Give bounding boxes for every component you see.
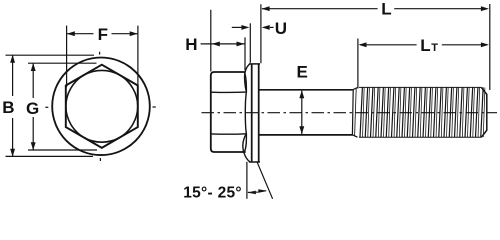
- threads: [360, 87, 485, 137]
- flange cone curve top: [245, 64, 250, 92]
- angle arrow left: [248, 191, 256, 195]
- U arrow right shaft: [270, 26, 274, 28]
- thread runout bottom: [353, 135, 358, 137]
- flange right face: [258, 64, 260, 162]
- centerline of bolt axis: [202, 112, 498, 114]
- head-flange boundary: [244, 72, 246, 152]
- svg-text:L: L: [420, 36, 430, 55]
- E arrow down: [299, 126, 304, 134]
- U arrow left shaft: [232, 26, 242, 28]
- outer flange circle (left view): [52, 58, 150, 156]
- dimension B extension line bottom: [6, 155, 94, 157]
- dimension G line: [32, 63, 34, 98]
- svg-text:U: U: [275, 19, 287, 38]
- H arrow left: [212, 41, 220, 46]
- LT arrow right: [481, 42, 489, 47]
- dimension G extension line bottom: [28, 149, 97, 151]
- bolt tip chamfer: [481, 87, 487, 137]
- dimension LT line: [360, 44, 417, 46]
- svg-text:L: L: [381, 0, 391, 19]
- U arrow left head: [241, 25, 249, 30]
- dimension F extension line right: [137, 26, 139, 90]
- hex head outline (side view): [211, 72, 246, 152]
- U extension line left: [249, 23, 251, 63]
- centerline tick right: [153, 106, 156, 108]
- L arrow right: [481, 6, 489, 11]
- dimension F arrow left: [67, 31, 75, 36]
- dimension E line: [301, 91, 303, 134]
- LT arrow left: [359, 42, 367, 47]
- L arrow left: [262, 6, 270, 11]
- svg-text:G: G: [26, 99, 39, 118]
- chamfer rounded hex (left view): [66, 70, 138, 142]
- dimension B line: [12, 55, 14, 96]
- U extension line right (shared with L): [260, 4, 262, 63]
- dimension G extension line top: [28, 62, 97, 64]
- svg-text:H: H: [185, 35, 197, 54]
- E arrow up: [299, 90, 304, 98]
- head facet line lower: [211, 133, 246, 135]
- hex head outline (left view): [66, 65, 138, 148]
- svg-text:B: B: [2, 98, 14, 117]
- flange top edge: [249, 63, 260, 65]
- dimension B arrow up: [10, 55, 15, 63]
- H extension line right: [244, 37, 246, 70]
- thread runout stroke: [355, 88, 357, 136]
- dimension G arrow down: [31, 142, 36, 150]
- dimension L line: [262, 8, 378, 10]
- centerline tick left: [45, 106, 48, 108]
- thread crest bottom edge: [359, 136, 481, 138]
- H extension line left (above head): [210, 10, 212, 72]
- centerline tick bottom: [99, 158, 101, 161]
- thread runout top: [353, 88, 358, 90]
- LT extension line left: [357, 39, 359, 89]
- head facet line upper: [211, 91, 246, 93]
- svg-text:F: F: [98, 25, 108, 44]
- shank top edge: [259, 89, 353, 91]
- svg-text:E: E: [297, 62, 308, 81]
- dimension F extension line left: [66, 26, 68, 88]
- U arrow right head: [262, 25, 270, 30]
- flange bottom edge: [249, 161, 260, 163]
- flange left face: [251, 64, 253, 162]
- thread crest top edge: [359, 86, 481, 88]
- dimension B extension line top: [6, 54, 95, 56]
- angle reference line vertical: [246, 162, 248, 199]
- dimension G arrow up: [31, 63, 36, 71]
- centerline tick top: [99, 52, 101, 55]
- dimension B arrow down: [10, 149, 15, 157]
- shank bottom edge: [259, 134, 353, 136]
- L/LT extension line right: [489, 4, 491, 90]
- dimension F line: [67, 33, 94, 35]
- dimension F arrow right: [130, 31, 138, 36]
- flange cone curve bottom: [243, 134, 250, 162]
- angle arrow right: [258, 189, 266, 193]
- thread runout boundary: [351, 90, 354, 135]
- H arrow right: [237, 41, 245, 46]
- angle dimension arc: [248, 191, 266, 193]
- svg-text:T: T: [431, 42, 438, 54]
- dimension H line: [201, 43, 245, 45]
- svg-text:15°- 25°: 15°- 25°: [183, 185, 242, 202]
- angle slant line: [257, 162, 272, 199]
